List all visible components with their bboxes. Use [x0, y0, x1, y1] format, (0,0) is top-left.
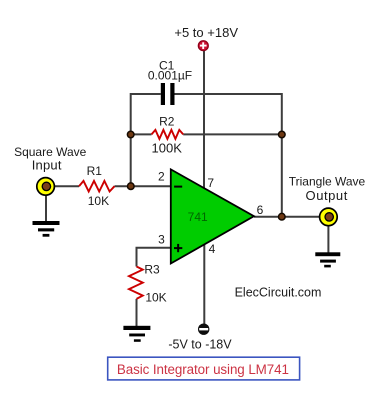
svg-text:R3: R3 [144, 262, 160, 276]
svg-text:+5 to +18V: +5 to +18V [174, 25, 238, 40]
svg-text:R2: R2 [159, 115, 175, 129]
svg-text:Input: Input [32, 158, 62, 173]
svg-text:Triangle Wave: Triangle Wave [289, 174, 366, 188]
svg-text:6: 6 [257, 203, 264, 217]
svg-text:ElecCircuit.com: ElecCircuit.com [235, 285, 322, 299]
svg-text:2: 2 [158, 169, 165, 183]
svg-text:R1: R1 [87, 164, 103, 178]
svg-text:-5V to -18V: -5V to -18V [168, 337, 232, 351]
svg-text:741: 741 [188, 210, 208, 224]
svg-text:10K: 10K [145, 290, 166, 304]
svg-text:0.001µF: 0.001µF [148, 68, 192, 82]
svg-text:3: 3 [158, 232, 165, 246]
svg-text:4: 4 [209, 242, 216, 256]
svg-text:Basic Integrator using LM741: Basic Integrator using LM741 [117, 362, 289, 377]
svg-text:10K: 10K [88, 194, 109, 208]
svg-text:100K: 100K [152, 140, 183, 155]
svg-text:7: 7 [207, 176, 214, 190]
svg-text:Output: Output [306, 188, 348, 203]
